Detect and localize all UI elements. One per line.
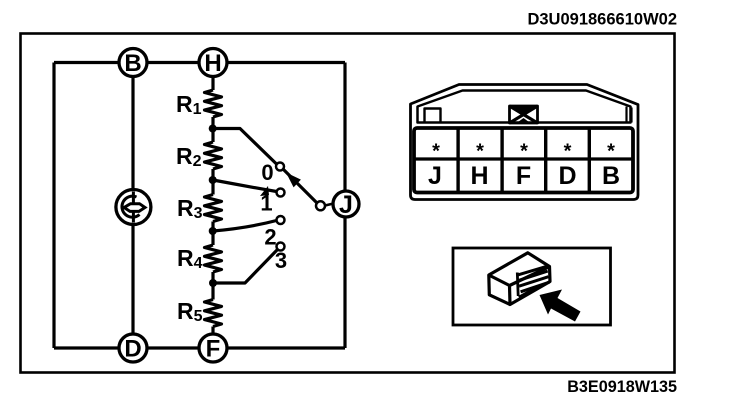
svg-text:J: J <box>339 191 353 219</box>
svg-text:F: F <box>206 336 221 363</box>
svg-text:F: F <box>516 162 531 190</box>
svg-text:J: J <box>428 162 442 190</box>
svg-text:*: * <box>607 141 615 163</box>
svg-text:1: 1 <box>260 191 272 216</box>
svg-text:*: * <box>476 141 484 163</box>
svg-text:2: 2 <box>264 225 276 250</box>
svg-text:B3E0918W135: B3E0918W135 <box>567 378 677 396</box>
svg-text:H: H <box>470 162 488 190</box>
svg-text:*: * <box>432 141 440 163</box>
svg-text:*: * <box>564 141 572 163</box>
svg-text:D3U091866610W02: D3U091866610W02 <box>527 11 677 29</box>
svg-text:D: D <box>558 162 576 190</box>
svg-text:D: D <box>124 336 141 363</box>
svg-text:B: B <box>124 50 141 77</box>
svg-text:*: * <box>520 141 528 163</box>
svg-text:3: 3 <box>275 248 287 273</box>
svg-text:B: B <box>602 162 620 190</box>
svg-text:H: H <box>204 50 221 77</box>
svg-text:0: 0 <box>261 160 273 185</box>
